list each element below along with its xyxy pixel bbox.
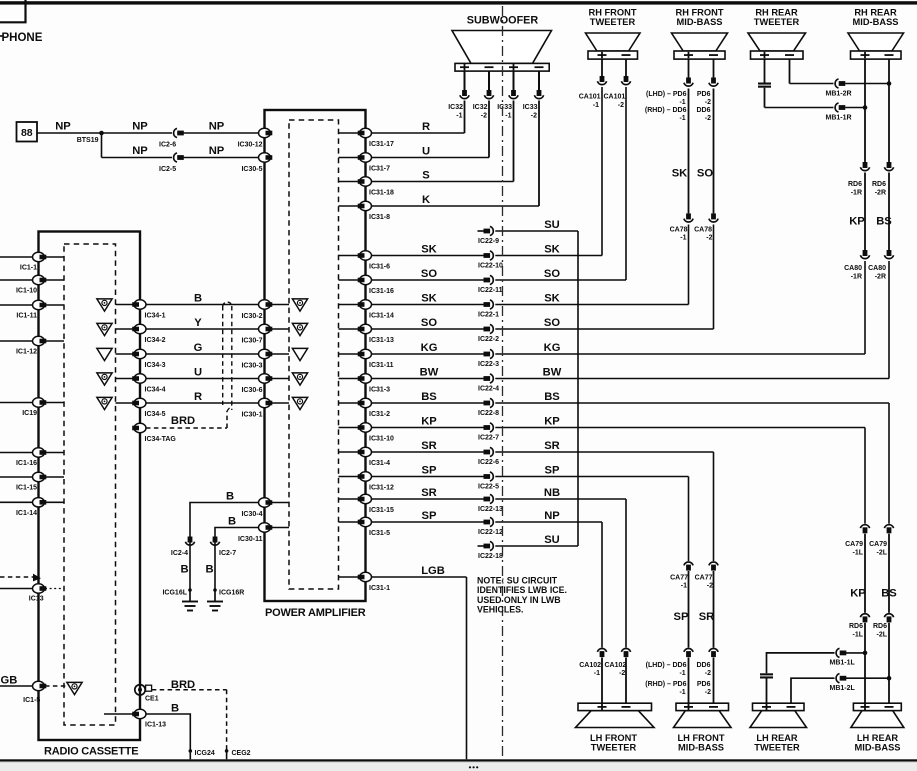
stub screen-box to IC34-1 <box>116 304 134 306</box>
svg-text:KP: KP <box>544 416 560 428</box>
wire NP lower to IC2-5 <box>102 157 173 159</box>
wire RD6 to CA80 (KP) <box>864 173 866 251</box>
svg-text:B: B <box>171 703 179 715</box>
subwoofer lead IC33-1 <box>513 71 515 90</box>
svg-text:B: B <box>180 564 188 576</box>
svg-text:TWEETER: TWEETER <box>754 17 800 27</box>
svg-text:RD6: RD6 <box>849 623 863 630</box>
stub IC30-11 into screen box <box>272 527 290 529</box>
svg-text:CA77: CA77 <box>670 575 688 582</box>
capacitor RH rear tweeter <box>758 83 771 88</box>
svg-text:CA101: CA101 <box>579 94 601 101</box>
connector IC22-4 <box>478 374 499 393</box>
stub IC1-15 into screen box <box>45 476 64 478</box>
pin IC19 <box>22 398 46 417</box>
svg-text:IC31-13: IC31-13 <box>369 337 394 344</box>
connector CA78-2 <box>694 213 718 241</box>
svg-text:U: U <box>194 367 202 379</box>
stub into amp screen box <box>339 328 359 330</box>
radio cassette box <box>39 232 141 741</box>
wire to IC1-11 <box>0 304 33 306</box>
wire IC2-7 to ICG16R <box>214 547 216 591</box>
svg-text:-1R: -1R <box>851 274 862 281</box>
wire KG up to CA80-1R <box>864 261 866 354</box>
connector MB1-2L <box>830 674 856 692</box>
wire SU link vertical <box>577 231 579 546</box>
shield symbol row U <box>97 373 112 385</box>
svg-text:IC22-3: IC22-3 <box>478 361 499 368</box>
labels DD6 PD6 (LH) <box>645 662 711 696</box>
label R <box>194 391 202 403</box>
svg-text:PHONE: PHONE <box>2 32 43 44</box>
connector MB1-1L <box>830 648 856 666</box>
svg-text:NP: NP <box>544 510 560 522</box>
svg-text:IC30-3: IC30-3 <box>241 363 262 370</box>
wire CA79-1L down <box>864 534 866 613</box>
svg-text:-2: -2 <box>705 115 711 122</box>
svg-text:IDENTIFIES LWB ICE.: IDENTIFIES LWB ICE. <box>477 585 567 595</box>
wire tweeter- to MB1-2R <box>790 59 834 84</box>
wire SK from IC22-10 <box>495 255 602 257</box>
svg-text:CA77: CA77 <box>695 575 713 582</box>
fold line (vehicle centreline) <box>502 6 504 758</box>
pin IC30-5 <box>241 153 272 173</box>
svg-text:CEG2: CEG2 <box>232 750 251 757</box>
connector CA77-2 <box>695 562 719 590</box>
svg-text:BS: BS <box>421 391 437 403</box>
svg-text:IC1-16: IC1-16 <box>16 460 37 467</box>
svg-text:IC30-12: IC30-12 <box>238 142 263 149</box>
pin IC30-1 <box>241 398 272 418</box>
wire SO up to CA101-2 <box>625 87 627 280</box>
stub IC30-4 into screen box <box>272 502 290 504</box>
pin IC1-14 <box>16 498 46 517</box>
pin IC1-5 <box>23 681 46 704</box>
wire SK up to CA78-1 <box>688 225 690 305</box>
connector CA102-2 <box>605 648 631 677</box>
svg-text:TWEETER: TWEETER <box>590 17 636 27</box>
svg-text:IC1-11: IC1-11 <box>16 313 37 320</box>
ground ICG24 <box>189 749 215 759</box>
svg-text:IC30-11: IC30-11 <box>238 536 263 543</box>
svg-text:-2: -2 <box>705 689 711 696</box>
amp shield symbol row R <box>292 397 307 409</box>
label NP <box>544 510 560 522</box>
amp shield symbol row B <box>292 299 307 311</box>
svg-text:RD6: RD6 <box>848 181 862 188</box>
svg-text:R: R <box>194 391 202 403</box>
stub into amp screen box <box>339 181 359 183</box>
label SK <box>421 293 437 305</box>
label PHONE <box>0 32 43 44</box>
svg-text:-1L: -1L <box>853 550 864 557</box>
amp shield symbol row U <box>292 373 307 385</box>
svg-text:CA79: CA79 <box>845 541 863 548</box>
svg-text:IC31-17: IC31-17 <box>369 141 394 148</box>
label G <box>194 342 203 354</box>
connector IC2-5 <box>159 153 184 173</box>
label NP <box>55 120 71 132</box>
label SR <box>699 611 715 623</box>
svg-text:BW: BW <box>420 367 439 379</box>
connector IC22-12 <box>478 517 503 536</box>
pin IC31-13 <box>358 324 394 344</box>
label Y <box>194 317 202 329</box>
svg-text:-1: -1 <box>679 99 685 106</box>
connector CE1 <box>135 685 159 703</box>
svg-text:B: B <box>194 293 202 305</box>
pin IC31-18 <box>358 177 394 197</box>
svg-text:NP: NP <box>209 145 225 157</box>
stub IC30 into amp screen box <box>272 353 290 355</box>
wire to IC1-12 <box>0 340 33 342</box>
svg-text:SR: SR <box>699 611 715 623</box>
svg-text:LGB: LGB <box>421 565 445 577</box>
wire capacitor to MB1-1R <box>765 88 834 108</box>
svg-text:-2: -2 <box>707 583 713 590</box>
wire mid-bass+ lead <box>864 59 866 162</box>
svg-text:IC22-5: IC22-5 <box>478 484 499 491</box>
svg-text:IC1-10: IC1-10 <box>16 288 37 295</box>
svg-text:SO: SO <box>697 168 713 180</box>
connector IC22-7 <box>478 423 499 442</box>
pin IC13 <box>29 584 46 603</box>
svg-text:IC31-12: IC31-12 <box>369 485 394 492</box>
pin IC30-4 <box>241 498 272 518</box>
label KP <box>849 216 865 228</box>
label KP <box>850 588 866 600</box>
svg-text:-1: -1 <box>505 113 511 120</box>
svg-text:BS: BS <box>876 216 892 228</box>
connector MB1-2R <box>826 79 852 98</box>
stub into amp screen box <box>339 157 359 159</box>
svg-text:NOTE: SU CIRCUIT: NOTE: SU CIRCUIT <box>477 575 558 585</box>
ground ICG16L <box>162 588 198 610</box>
connector IC22-18 <box>478 541 503 560</box>
shield symbol row B <box>97 299 112 311</box>
wire Y IC34-2 to IC30 <box>146 328 265 330</box>
shield symbol row R <box>97 397 112 409</box>
wire R IC34-5 to IC30 <box>146 402 265 404</box>
telephone unit (partial box) <box>0 0 26 22</box>
connector CA80-2R <box>868 250 894 281</box>
stub into amp screen box <box>339 476 359 478</box>
pin IC31-17 <box>358 128 394 148</box>
wire S to subwoofer <box>366 101 514 182</box>
wire NP IC2-6 to IC30-12 <box>184 132 265 134</box>
pin IC30-2 <box>241 300 272 320</box>
wire NP upper to IC2-6 <box>102 132 173 134</box>
wire KP down to CA79-1L <box>864 428 866 524</box>
svg-text:IC22-4: IC22-4 <box>478 386 499 393</box>
label SR <box>421 487 437 499</box>
label B <box>180 564 188 576</box>
svg-text:SO: SO <box>544 268 560 280</box>
wire CA77-2 to DD6 <box>713 571 715 648</box>
wire MB1-1L to node <box>846 652 865 654</box>
fuse box 88 <box>17 122 38 142</box>
wire PD6-1 lead <box>688 59 690 213</box>
svg-text:CA80: CA80 <box>844 265 862 272</box>
wire CA101-1 lead <box>601 59 603 76</box>
label B <box>226 491 234 503</box>
pin IC30-3 <box>241 349 272 369</box>
stub IC30 into amp screen box <box>272 402 290 404</box>
svg-text:MID-BASS: MID-BASS <box>678 742 724 752</box>
svg-text:-2L: -2L <box>877 632 888 639</box>
svg-text:CA102: CA102 <box>605 662 627 669</box>
stub IC1-16 into screen box <box>45 452 64 454</box>
svg-text:IC31-5: IC31-5 <box>369 530 390 537</box>
wire NP from IC22-12 <box>495 521 602 523</box>
svg-text:88: 88 <box>21 127 33 139</box>
pin IC34-2 <box>132 324 165 344</box>
svg-text:-1: -1 <box>679 670 685 677</box>
wire IC2-4 to ICG16L <box>189 547 191 591</box>
dashed arrow into IC13 <box>0 574 41 582</box>
connector IC22-1 <box>478 300 499 319</box>
wire MB1-1R to node <box>845 105 867 110</box>
speaker LH REAR MID-BASS <box>851 703 904 752</box>
svg-text:SO: SO <box>421 268 437 280</box>
svg-text:SK: SK <box>421 244 437 256</box>
label BW <box>420 367 439 379</box>
svg-text:TWEETER: TWEETER <box>754 742 800 752</box>
svg-text:BRD: BRD <box>171 679 195 691</box>
wire SO from IC22-2 <box>495 328 713 330</box>
wire B IC1-13 to ICG24 <box>146 703 190 752</box>
svg-text:IC1-14: IC1-14 <box>16 510 37 517</box>
speaker LH REAR TWEETER <box>750 703 807 752</box>
svg-text:U: U <box>422 146 430 158</box>
wire MB1-2L to node <box>846 677 889 679</box>
svg-text:IC34-1: IC34-1 <box>145 313 166 320</box>
wire BS IC31-2 to IC22-8 <box>366 402 484 404</box>
connector PD6/DD6 -1 <box>684 78 693 87</box>
svg-text:SP: SP <box>422 465 437 477</box>
wire SK up to CA101-1 <box>601 87 603 256</box>
amp shield symbol row Y <box>292 323 307 335</box>
wire B IC34-1 to IC30 <box>146 304 265 306</box>
wire NP from 88 to BTS19 <box>37 132 102 134</box>
wire NB down to CA102-2 <box>625 499 627 648</box>
svg-text:B: B <box>228 516 236 528</box>
wire SP down to CA77-1 <box>688 477 690 562</box>
wire G IC34-3 to IC30 <box>146 353 265 355</box>
svg-text:NP: NP <box>55 120 71 132</box>
wire SR IC31-4 to IC22-6 <box>366 451 484 453</box>
pin IC31-1 <box>358 572 390 592</box>
power amplifier box <box>265 110 366 601</box>
svg-text:MID-BASS: MID-BASS <box>677 17 723 27</box>
stub IC1-10 into screen box <box>45 279 64 281</box>
svg-text:IC34-5: IC34-5 <box>145 411 166 418</box>
svg-text:DD6: DD6 <box>696 107 710 114</box>
svg-text:ICG16R: ICG16R <box>219 590 244 597</box>
label BS <box>876 216 892 228</box>
svg-text:IC30-7: IC30-7 <box>241 338 262 345</box>
wire SR down to CA77-2 <box>713 452 715 561</box>
label RADIO CASSETTE <box>44 746 138 758</box>
wire NP down to CA102-1 <box>601 522 603 648</box>
svg-text:SP: SP <box>545 465 560 477</box>
svg-text:IC33: IC33 <box>523 104 538 111</box>
wire KG from IC22-3 <box>495 353 865 355</box>
label SR <box>544 440 560 452</box>
svg-text:RD6: RD6 <box>873 623 887 630</box>
svg-text:DD6: DD6 <box>696 662 710 669</box>
wire to IC1-14 <box>0 501 33 503</box>
svg-text:IC31-8: IC31-8 <box>369 214 390 221</box>
label NP <box>209 145 225 157</box>
svg-text:BS: BS <box>544 391 560 403</box>
wire BW IC31-3 to IC22-4 <box>366 378 484 380</box>
note text <box>477 575 567 614</box>
svg-text:-1: -1 <box>681 583 687 590</box>
svg-text:IC19: IC19 <box>22 410 37 417</box>
connector CA101-2 <box>604 76 631 109</box>
stub into amp screen box <box>339 255 359 257</box>
wire MB1-2R to node <box>845 81 891 86</box>
svg-text:GB: GB <box>1 675 18 687</box>
wire SK IC31-14 to IC22-1 <box>366 304 484 306</box>
wire CA101-2 lead <box>625 59 627 76</box>
wire SP IC31-5 to IC22-12 <box>366 521 484 523</box>
shield symbol row G <box>97 348 112 360</box>
svg-text:IC30-2: IC30-2 <box>241 313 262 320</box>
connector CA78-1 <box>670 213 694 241</box>
stub into amp screen box <box>339 378 359 380</box>
wire KG IC31-11 to IC22-3 <box>366 353 484 355</box>
wire BS from IC22-8 <box>495 402 889 404</box>
label B <box>205 564 213 576</box>
amp shield symbol row G <box>292 348 307 360</box>
connector IC33-2 <box>523 90 544 120</box>
stub screen-box to IC34-4 <box>116 378 134 380</box>
wire R to subwoofer <box>366 101 465 134</box>
svg-text:SO: SO <box>421 317 437 329</box>
wire to IC1-15 <box>0 476 33 478</box>
wire LGB IC31-1 <box>366 577 467 759</box>
label S <box>422 170 430 182</box>
stub into amp screen box <box>339 451 359 453</box>
connector IC2-6 <box>159 128 184 148</box>
svg-text:IC22-7: IC22-7 <box>478 435 499 442</box>
speaker RH FRONT MID-BASS <box>672 8 728 60</box>
svg-text:IC31-2: IC31-2 <box>369 411 390 418</box>
label B <box>228 516 236 528</box>
connector IC22-6 <box>478 447 499 466</box>
svg-text:VEHICLES.: VEHICLES. <box>477 605 523 615</box>
pin IC31-7 <box>358 153 390 173</box>
svg-text:CA78: CA78 <box>694 227 712 234</box>
connector RD6-2L <box>873 614 894 639</box>
connector CA77-1 <box>670 562 693 590</box>
svg-text:IC1-5: IC1-5 <box>23 697 40 704</box>
label SK <box>544 244 560 256</box>
wire B IC2-7 to IC30-11 <box>215 528 265 547</box>
wire to IC1-16 <box>0 452 33 454</box>
stub inside radio to IC1-13 <box>104 713 133 715</box>
svg-text:ICG16L: ICG16L <box>162 590 187 597</box>
svg-text:IC22-6: IC22-6 <box>478 459 499 466</box>
svg-text:IC31-3: IC31-3 <box>369 387 390 394</box>
stub into amp screen box <box>339 402 359 404</box>
svg-text:SU: SU <box>544 219 560 231</box>
connector IC22-2 <box>478 324 499 343</box>
svg-text:IC22-18: IC22-18 <box>478 553 503 560</box>
connector RD6-1R <box>848 162 870 197</box>
connector IC33-1 <box>497 90 518 120</box>
svg-text:-2: -2 <box>618 102 624 109</box>
svg-text:SO: SO <box>544 317 560 329</box>
connector IC22-13 <box>478 494 503 513</box>
svg-text:IC31-14: IC31-14 <box>369 313 394 320</box>
svg-text:-2: -2 <box>481 113 487 120</box>
subwoofer lead IC32-1 <box>464 71 466 90</box>
label SO <box>697 168 713 180</box>
svg-text:IC33: IC33 <box>497 104 512 111</box>
wire LH tweeter+ to MB1-1L <box>767 653 835 673</box>
svg-text:SR: SR <box>421 487 437 499</box>
stub into amp screen box <box>339 353 359 355</box>
svg-text:IC1-15: IC1-15 <box>16 485 37 492</box>
label SU <box>544 219 560 231</box>
pin IC1-16 <box>16 448 46 467</box>
wire K to subwoofer <box>366 101 540 207</box>
stub IC30 into amp screen box <box>272 378 290 380</box>
svg-text:IC34-4: IC34-4 <box>145 387 166 394</box>
wire SO IC31-13 to IC22-2 <box>366 328 484 330</box>
wire to IC1-1 <box>0 256 33 258</box>
svg-text:ICG24: ICG24 <box>195 750 215 757</box>
wire IC13 to left <box>0 588 33 590</box>
label KP <box>421 416 437 428</box>
svg-text:IC22-1: IC22-1 <box>478 312 499 319</box>
connector IC22-8 <box>478 398 499 417</box>
connector MB1-1R <box>826 103 852 122</box>
svg-text:IC30-5: IC30-5 <box>241 166 262 173</box>
label BS <box>421 391 437 403</box>
connector PD6/DD6 -2 <box>709 78 718 87</box>
svg-text:-2: -2 <box>619 670 625 677</box>
label R <box>422 121 430 133</box>
stub IC30 into amp screen box <box>272 328 290 330</box>
stub IC30 into amp screen box <box>272 304 290 306</box>
wire BW up to CA80-2R <box>888 261 890 379</box>
wire BS down to CA79-2L <box>888 403 890 524</box>
pin IC31-11 <box>358 349 394 369</box>
wire SR IC31-15 to IC22-13 <box>366 498 484 500</box>
wire PD6-2 lead <box>713 59 715 213</box>
stub into amp screen box <box>339 521 359 523</box>
connector IC22-5 <box>478 472 499 491</box>
connector IC22-3 <box>478 349 499 368</box>
label SK <box>544 293 560 305</box>
connector DD6/PD6 -1 (LH) <box>684 648 693 657</box>
svg-text:IC13: IC13 <box>29 596 44 603</box>
pin IC31-5 <box>358 517 390 537</box>
label B <box>194 293 202 305</box>
wire B IC2-4 to IC30-4 <box>190 503 265 547</box>
stub IC1-11 into screen box <box>45 304 64 306</box>
connector CA102-1 <box>579 648 606 677</box>
svg-text:IC31-7: IC31-7 <box>369 166 390 173</box>
svg-text:-2L: -2L <box>877 550 888 557</box>
label POWER AMPLIFIER <box>265 607 366 619</box>
label SK <box>421 244 437 256</box>
pin IC31-3 <box>358 374 390 394</box>
